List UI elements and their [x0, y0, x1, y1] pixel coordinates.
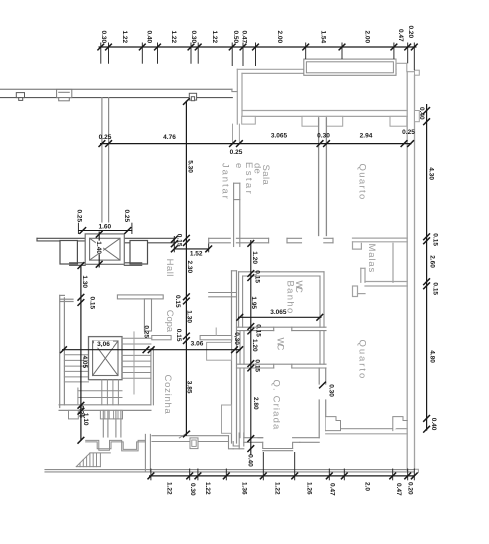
- corridor wall west segment: [37, 237, 85, 239]
- malas SW stub: [360, 268, 362, 282]
- svg-text:1.22: 1.22: [121, 31, 128, 44]
- svg-text:Cozinha: Cozinha: [162, 375, 173, 415]
- svg-text:0.15: 0.15: [88, 297, 95, 310]
- Q.Criada south wall with porch recess: [244, 438, 319, 451]
- kitchen door swing: [179, 431, 190, 438]
- svg-text:Hall: Hall: [164, 259, 175, 277]
- svg-text:2.60: 2.60: [428, 255, 435, 268]
- divider bath/WC with door: [237, 327, 327, 330]
- long left vertical dimension line: [185, 101, 187, 436]
- bedroom2 SE closet tab: [393, 417, 407, 431]
- hall south wall (to bath lobby): [209, 292, 237, 294]
- kitchen south wall: [152, 433, 244, 449]
- stair landing line: [78, 390, 122, 392]
- bedroom2 door dimension 0,30: [319, 382, 326, 389]
- svg-text:1.95: 1.95: [250, 296, 257, 309]
- balcony west wall: [236, 69, 238, 124]
- svg-text:1.26: 1.26: [305, 482, 312, 495]
- svg-text:0.30: 0.30: [189, 483, 196, 496]
- hall pillar east: [130, 241, 148, 265]
- svg-text:0.15: 0.15: [254, 324, 261, 337]
- svg-text:0.30: 0.30: [100, 31, 107, 44]
- fence pillar C with gate: [189, 93, 196, 100]
- svg-text:1.22: 1.22: [274, 482, 281, 495]
- hall pillar west: [60, 241, 77, 265]
- west wall of living room (double): [101, 98, 103, 222]
- central spine wall (double): [231, 271, 233, 443]
- porch east wall to ground: [144, 434, 146, 472]
- corridor wall east of elevator: [124, 237, 174, 239]
- svg-text:3.065: 3.065: [271, 133, 288, 140]
- riser pillar under mid dim ticks: [232, 124, 234, 144]
- fence corner to balcony: [232, 89, 237, 91]
- stairwell east wall lower: [150, 349, 152, 405]
- svg-text:4.76: 4.76: [163, 134, 176, 141]
- SE corner step to ground: [415, 469, 419, 472]
- corridor wall segment f: [324, 237, 333, 239]
- WC Banho box walls: [239, 272, 324, 327]
- svg-text:0.30: 0.30: [328, 384, 335, 397]
- entry ramp with hatching: [76, 453, 110, 467]
- svg-text:1.10: 1.10: [82, 413, 89, 426]
- service rooms vertical dimension line: [250, 240, 252, 455]
- corridor wall below sala divider: [236, 237, 268, 239]
- svg-text:0.47: 0.47: [328, 483, 335, 496]
- elevator1 width dimension 1.60: [78, 230, 132, 232]
- svg-text:1.36: 1.36: [240, 482, 247, 495]
- svg-text:e: e: [233, 163, 244, 168]
- bathroom width dimension 3.065: [238, 316, 322, 318]
- svg-text:WC: WC: [275, 338, 286, 351]
- wall between living room and bedroom1 (double): [318, 118, 320, 236]
- bedroom1 north wall (balcony floor): [242, 110, 407, 112]
- top dimension chain line: [99, 46, 417, 48]
- top chain extension lines: [101, 43, 415, 71]
- svg-text:0.25: 0.25: [402, 129, 415, 136]
- svg-text:1.30: 1.30: [81, 275, 88, 288]
- bedroom2 south wall: [326, 429, 408, 434]
- svg-text:0.15: 0.15: [432, 233, 439, 246]
- svg-text:2.94: 2.94: [360, 133, 373, 140]
- balcony north wall: [237, 68, 396, 70]
- NE corner step: [396, 59, 415, 72]
- svg-text:0.30: 0.30: [317, 133, 330, 140]
- corridor wall segment e: [287, 237, 302, 239]
- svg-text:0.15: 0.15: [432, 282, 439, 295]
- stairs upper flight treads: [64, 355, 88, 382]
- Q.Criada box walls: [240, 368, 244, 438]
- svg-text:2.0: 2.0: [363, 482, 370, 491]
- svg-text:1.52: 1.52: [190, 251, 203, 258]
- svg-text:0.25: 0.25: [99, 134, 112, 141]
- right vertical dimension line: [426, 104, 428, 431]
- pillar bump right: [390, 116, 407, 126]
- svg-text:0,30: 0,30: [233, 332, 240, 345]
- stairwell left outer wall: [60, 295, 73, 407]
- svg-text:Copa: Copa: [164, 310, 175, 333]
- fence niche B: [57, 89, 72, 97]
- svg-text:1.60: 1.60: [98, 223, 111, 230]
- top chain ticks: [97, 44, 417, 51]
- svg-text:0.47: 0.47: [395, 483, 402, 496]
- svg-text:4.80: 4.80: [428, 350, 435, 363]
- east pillar tab 0.40: [415, 111, 420, 122]
- malas north wall: [353, 237, 408, 239]
- svg-text:0.30: 0.30: [190, 31, 197, 44]
- small pantry line: [215, 328, 217, 336]
- svg-text:0.50: 0.50: [232, 31, 239, 44]
- pillar bump middle (split by wall): [302, 116, 319, 126]
- stairwell south wall: [59, 404, 151, 406]
- pillar stubs below stairwell: [69, 410, 79, 419]
- svg-text:1.22: 1.22: [165, 482, 172, 495]
- svg-text:0.15: 0.15: [176, 234, 183, 247]
- copa west wall stem: [144, 299, 151, 331]
- service vestibule walls: [103, 410, 121, 437]
- svg-text:0.20: 0.20: [407, 26, 414, 39]
- svg-text:3,06: 3,06: [97, 341, 110, 348]
- kitchen counter E: [222, 405, 232, 433]
- svg-text:1.22: 1.22: [211, 31, 218, 44]
- svg-text:Banho: Banho: [285, 281, 296, 314]
- lower flight treads (vertical): [102, 380, 119, 405]
- svg-text:0.25: 0.25: [230, 149, 243, 156]
- stub below malas: [353, 286, 358, 297]
- svg-text:1.20: 1.20: [251, 251, 258, 264]
- stair center rail: [77, 388, 79, 405]
- stairwell top wall piece: [60, 298, 73, 300]
- svg-text:0.15: 0.15: [175, 329, 182, 342]
- svg-text:3.06: 3.06: [191, 340, 204, 347]
- svg-text:0.47: 0.47: [397, 29, 404, 42]
- svg-text:0.40: 0.40: [247, 454, 254, 467]
- ground line (double): [45, 469, 414, 471]
- svg-text:0.15: 0.15: [254, 270, 261, 283]
- svg-text:3.065: 3.065: [270, 309, 287, 316]
- WC box walls: [240, 331, 324, 365]
- corridor wall by hall door: [209, 237, 231, 239]
- bedroom2 SW closet tab: [326, 417, 341, 431]
- svg-text:1.30: 1.30: [185, 310, 192, 323]
- svg-text:2.80: 2.80: [252, 397, 259, 410]
- bottom dimension chain: [149, 475, 415, 477]
- svg-text:0.40: 0.40: [418, 107, 425, 120]
- svg-text:2.00: 2.00: [364, 31, 371, 44]
- svg-text:Malas: Malas: [366, 244, 377, 273]
- elevator1 height dimension 1.40: [98, 232, 100, 268]
- north window (double rectangle): [304, 59, 396, 75]
- malas door jamb hook: [353, 242, 362, 249]
- hall door dimension 1.52: [174, 248, 208, 250]
- svg-text:Quarto: Quarto: [357, 164, 368, 200]
- svg-text:3.85: 3.85: [186, 381, 193, 394]
- stairwell width dimension 3.06: [62, 349, 241, 351]
- svg-text:2.00: 2.00: [276, 31, 283, 44]
- fence pillar A: [16, 93, 24, 98]
- svg-text:1.22: 1.22: [170, 31, 177, 44]
- top chain labels (rotated): [100, 26, 414, 44]
- svg-text:0.40: 0.40: [430, 418, 437, 431]
- svg-text:0.20: 0.20: [407, 482, 414, 495]
- elevator 2 shaft: [89, 337, 123, 380]
- svg-text:1.40: 1.40: [95, 241, 102, 254]
- svg-text:Quarto: Quarto: [356, 340, 367, 379]
- svg-text:0.47: 0.47: [241, 31, 248, 44]
- svg-text:5.30: 5.30: [187, 160, 194, 173]
- copa north wall bar: [117, 295, 163, 299]
- partial divider in living room: [233, 183, 235, 246]
- south porch stepped wall: [86, 440, 146, 451]
- stair treads east flight: [122, 338, 151, 378]
- NE jut: [415, 70, 420, 75]
- malas south wall: [365, 281, 407, 283]
- svg-text:0.15: 0.15: [254, 359, 261, 372]
- north fence wall top line: [0, 88, 232, 90]
- svg-text:0.25: 0.25: [76, 210, 83, 223]
- middle dimension chain: [100, 143, 412, 145]
- elevator 1 shaft: [85, 234, 124, 264]
- svg-text:1.20: 1.20: [251, 339, 258, 352]
- kitchen counter NE: [207, 342, 232, 360]
- svg-text:4.30: 4.30: [427, 167, 434, 180]
- east outer wall (double): [406, 72, 408, 471]
- svg-text:0.25: 0.25: [123, 210, 130, 223]
- copa/cozinha divider bars: [152, 336, 171, 340]
- svg-text:0.25: 0.25: [143, 325, 150, 338]
- east wall of service block / bedroom2 west wall: [319, 368, 326, 438]
- svg-text:4.05: 4.05: [81, 356, 88, 369]
- svg-text:1.54: 1.54: [319, 31, 326, 44]
- corridor (hall) north wall segments: [37, 238, 174, 243]
- Malas closet: [353, 238, 408, 296]
- left vertical dimension line (stairwell): [80, 265, 82, 441]
- corridor south wall segments: [70, 263, 142, 266]
- pillar bump left: [242, 116, 256, 124]
- svg-text:1.22: 1.22: [204, 482, 211, 495]
- svg-text:Q. Criada: Q. Criada: [270, 380, 281, 431]
- divider WC/Q.Criada with door: [237, 364, 327, 368]
- long stair rail line: [133, 332, 135, 394]
- svg-text:0.15: 0.15: [174, 295, 181, 308]
- svg-text:2.30: 2.30: [186, 261, 193, 274]
- svg-text:0.40: 0.40: [146, 31, 153, 44]
- north fence wall bottom line: [0, 97, 232, 99]
- malas inner shelf line: [392, 243, 394, 282]
